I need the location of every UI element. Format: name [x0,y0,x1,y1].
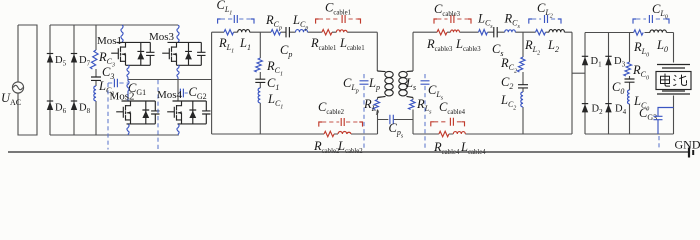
capacitor C_cable2 (dashed bracket) [319,118,363,127]
wire: stage2 top rail [212,31,378,33]
svg-text:Lcable4: Lcable4 [460,140,486,156]
svg-text:RL2: RL2 [524,38,540,57]
capacitor Cs (series) [494,27,497,37]
svg-text:RL0: RL0 [633,40,649,59]
capacitor C_L2 (dashed bracket) [529,15,561,24]
inductor L_Cp [296,30,308,33]
node: R_C1 branch junction wire [259,32,261,134]
inductor L_C1 [258,88,260,103]
inductor L_cable2 [338,132,351,135]
svg-text:LCp: LCp [292,13,308,32]
capacitor C2 [518,85,528,88]
resistor R_Cp [271,30,281,35]
diode D5 [47,54,53,63]
node: R_C2 branch wire [522,32,524,134]
resistor R_cable2 [324,131,334,136]
wire: stage2 bottom rail [212,133,378,135]
inductor L_cable1 [336,30,347,32]
inductor L1 [238,30,250,33]
transistor Q Mos3 cell [162,42,205,65]
diode D6 [47,101,53,110]
resistor R_Ls [409,100,416,110]
inductor: Mos3 source parasitic (wavy) [177,65,179,79]
svg-text:L0: L0 [656,38,668,54]
svg-text:RC1: RC1 [266,59,283,78]
node: ground-referenced dashed line (left) [107,83,109,150]
resistor R_C1 [255,58,263,72]
inductor: Mos3 drain parasitic (wavy) [177,25,179,42]
svg-text:CLs: CLs [428,83,444,102]
node: ground-referenced dashed line (mid) [157,80,159,150]
capacitor C1 [255,79,265,82]
AC source U_AC loop [12,25,37,135]
wire: R_C0 branch vertical [629,33,631,135]
svg-text:Lp: Lp [368,76,380,92]
svg-text:LCs: LCs [477,12,493,31]
diode D7 [71,54,77,63]
svg-text:RC2: RC2 [500,56,517,75]
wire: stage3 top rail [413,31,572,33]
capacitor C_G2 [178,89,188,98]
svg-text:Cps: Cps [389,121,404,140]
resistor R_C2 [517,57,525,72]
wire: rectifier feed jog [572,72,585,74]
capacitor C3 [91,77,101,80]
resistor R_L1 [224,30,233,35]
capacitor C_L0 (dashed bracket) [633,15,669,24]
transistor Q Mos1 cell [111,42,154,65]
capacitor C_Lp (to ground, dashed) [360,74,369,150]
svg-text:C2: C2 [501,75,513,91]
inductor: Mos4 source parasitic (wavy) [177,124,179,135]
svg-text:D6: D6 [55,103,67,116]
svg-text:Rcable3: Rcable3 [426,37,453,53]
diode D2 [582,104,588,113]
svg-text:CLp: CLp [343,76,359,95]
wire: stage2 left edge [211,32,213,134]
resistor R_Lp [373,100,380,110]
transistor Q Mos2 cell [116,101,159,124]
wire: transformer secondary loop [394,32,413,134]
capacitor C_cable1 (dashed bracket) [316,15,361,24]
capacitor C0 [625,79,635,82]
svg-text:LC2: LC2 [500,93,516,112]
wire: inverter midpoint bus [128,79,212,81]
svg-text:CL1: CL1 [217,0,233,17]
capacitor C_Ls (to ground, dashed) [421,74,430,150]
inductor Lp (primary winding) [377,71,393,98]
resistor R_C3 [90,50,98,69]
inductor L_C0 [628,90,630,104]
ground terminal symbol [689,148,693,158]
diode D1 [582,56,588,65]
wire: bridge leg D7/D8 [73,25,75,135]
wire: Mos4 drain [177,80,179,102]
inductor L_C3 [94,86,96,101]
inductor: Mos2 drain parasitic (wavy) [127,80,129,102]
svg-text:Rcable4: Rcable4 [433,140,460,156]
wire: bridge/inverter bottom rail [50,134,179,136]
wire: transformer primary loop [377,32,388,134]
diode D4 [605,104,611,113]
svg-text:RC0: RC0 [632,63,649,82]
inductor L_cable4 [453,132,465,134]
capacitor C_G3 branch [654,108,674,150]
svg-text:Mos4: Mos4 [157,89,183,101]
svg-text:Ccable3: Ccable3 [434,2,461,18]
svg-text:L1: L1 [239,36,251,52]
resistor R_cable4 [439,131,449,136]
inductor L_cable3 [451,30,460,32]
capacitor Cp (series) [286,27,289,37]
resistor L_Cs (zigzag) [479,30,488,35]
inductor L2 [549,30,564,33]
inductor: Mos1 drain parasitic (wavy) [121,25,123,42]
wire: bridge top rail [50,24,178,26]
wire: stage3 right edge [571,32,573,134]
svg-text:Rcable1: Rcable1 [310,36,336,52]
svg-text:RL1: RL1 [218,36,234,55]
svg-text:D3: D3 [614,56,626,69]
svg-text:CG2: CG2 [189,85,207,101]
resistor R_L0 [634,30,644,35]
wire: R_C3 branch vertical [95,25,97,135]
transistor Q Mos4 cell [167,101,210,124]
svg-text:GND: GND [675,138,700,152]
svg-text:D8: D8 [79,103,91,116]
wire: rectifier bottom rail [585,133,674,135]
svg-text:Cp: Cp [280,43,292,59]
svg-text:RLs: RLs [416,97,432,116]
capacitor C_G1 [108,79,128,87]
svg-text:Lcable3: Lcable3 [455,37,481,53]
battery text 电池 (drawn strokes) [661,74,687,87]
wire: output filter rail [630,32,674,34]
svg-text:D5: D5 [55,55,67,68]
diode D8 [71,101,77,110]
capacitor C_cable3 (dashed bracket) [434,15,471,24]
inductor L0 [650,30,666,33]
svg-text:Ccable1: Ccable1 [325,1,351,17]
wire: bridge leg D5/D6 [49,25,51,135]
svg-text:CL0: CL0 [652,2,668,21]
svg-text:CL2: CL2 [537,1,553,20]
resistor R_cable1 [322,30,332,35]
capacitor C_cable4 (dashed bracket) [431,118,465,127]
svg-text:RCp: RCp [265,13,282,32]
svg-text:LC1: LC1 [267,92,283,111]
svg-text:D7: D7 [79,55,91,68]
resistor R_L2 [536,30,546,35]
battery (电池) [656,33,691,135]
resistor R_cable3 [437,30,447,35]
svg-text:D4: D4 [615,104,627,117]
capacitor C_L1 (dashed bracket) [218,15,254,24]
svg-text:C0: C0 [612,80,624,96]
svg-text:RCs: RCs [504,12,521,31]
capacitor C_ps (primary-secondary) [390,115,393,124]
svg-text:D1: D1 [591,56,603,69]
inductor: Mos1 source parasitic (wavy) [127,65,129,79]
wire: rectifier top rail [585,32,630,34]
svg-text:Mos3: Mos3 [149,31,175,43]
svg-text:D2: D2 [592,104,604,117]
svg-text:Mos1: Mos1 [97,35,122,47]
wire: rectifier leg D3/D4 [608,33,610,135]
inductor Ls (secondary winding) [399,71,413,98]
diode D3 [605,56,611,65]
inductor L_C2 [521,92,523,107]
wire: stage3 bottom rail [413,133,572,135]
svg-text:Lcable1: Lcable1 [339,36,365,52]
resistor R_C0 [624,62,632,76]
wire: rectifier leg D1/D2 [584,33,586,135]
svg-text:Ccable2: Ccable2 [318,100,345,116]
inductor: Mos2 source parasitic (wavy) [127,124,129,135]
svg-text:C1: C1 [267,76,279,92]
svg-text:Ccable4: Ccable4 [439,100,466,116]
svg-text:Ls: Ls [405,76,416,92]
inductor R_Cs (coil) [505,30,516,32]
ground GND line [8,151,689,153]
svg-text:L2: L2 [547,38,559,54]
